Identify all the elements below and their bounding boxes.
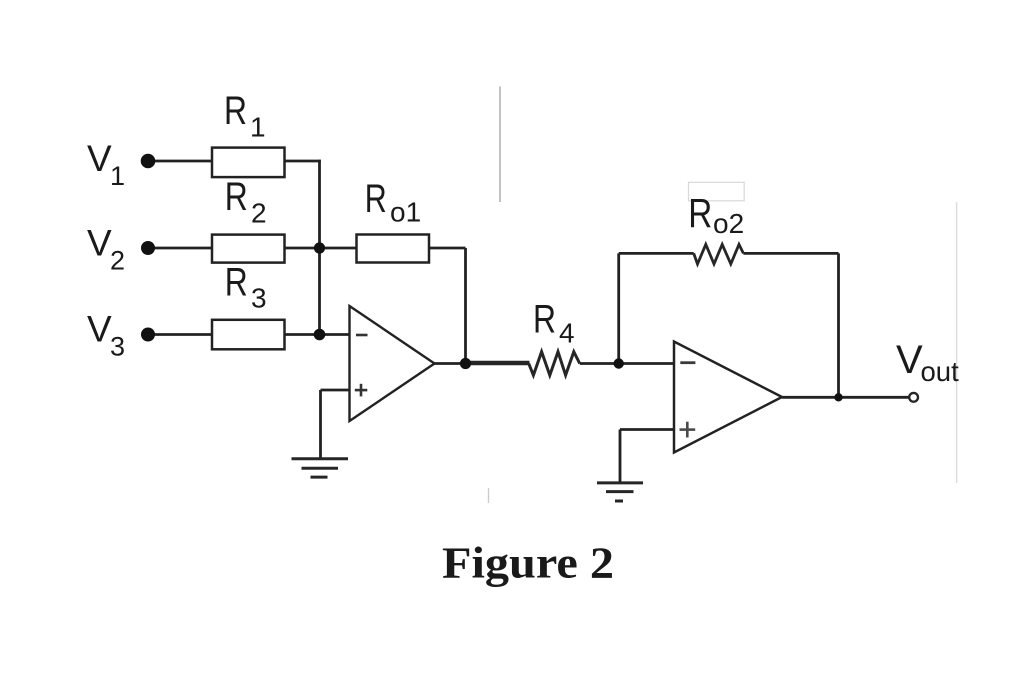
svg-text:V: V xyxy=(896,338,923,382)
svg-text:R: R xyxy=(365,177,387,221)
svg-text:R: R xyxy=(224,89,247,133)
svg-text:R: R xyxy=(225,175,248,219)
svg-text:4: 4 xyxy=(559,317,575,348)
svg-text:o2: o2 xyxy=(713,208,744,239)
svg-text:Figure 2: Figure 2 xyxy=(442,538,614,587)
svg-text:2: 2 xyxy=(251,198,267,229)
svg-text:V: V xyxy=(87,309,112,350)
svg-text:3: 3 xyxy=(110,332,125,362)
svg-text:R: R xyxy=(533,298,556,342)
svg-text:o1: o1 xyxy=(390,196,421,227)
svg-text:V: V xyxy=(87,223,112,264)
svg-text:R: R xyxy=(225,261,248,305)
svg-text:R: R xyxy=(688,190,712,236)
svg-text:2: 2 xyxy=(110,246,125,276)
svg-text:V: V xyxy=(87,138,112,179)
svg-text:out: out xyxy=(921,356,960,387)
svg-text:3: 3 xyxy=(251,283,267,314)
svg-text:1: 1 xyxy=(110,161,125,191)
svg-text:1: 1 xyxy=(250,112,266,143)
